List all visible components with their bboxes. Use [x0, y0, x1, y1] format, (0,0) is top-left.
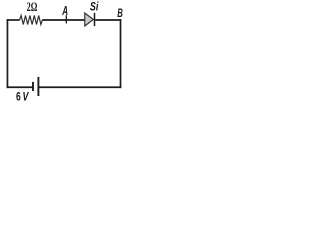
wire: left vertical side: [6, 19, 8, 88]
diode D1 cathode bar: [94, 13, 96, 26]
wire: top segment from resistor to diode: [42, 19, 85, 21]
wire: top segment from diode to right corner: [95, 19, 121, 21]
wire: right vertical side: [120, 19, 122, 88]
node A tick mark: [65, 15, 67, 23]
svg-text:V: V: [23, 90, 30, 104]
svg-text:Si: Si: [90, 0, 99, 14]
wire: bottom segment from battery to left corner: [7, 86, 33, 88]
battery short plate (negative): [32, 82, 34, 91]
svg-text:6: 6: [16, 90, 21, 104]
resistor R1 zigzag: [20, 16, 43, 25]
svg-text:2Ω: 2Ω: [27, 0, 38, 14]
svg-text:A: A: [62, 3, 68, 18]
wire: bottom segment from right corner to battery: [38, 86, 121, 88]
diode D1 triangle anode (Si): [85, 13, 94, 26]
wire: top left segment into resistor: [7, 19, 20, 21]
battery long plate (positive): [37, 77, 39, 96]
svg-text:B: B: [117, 6, 123, 20]
